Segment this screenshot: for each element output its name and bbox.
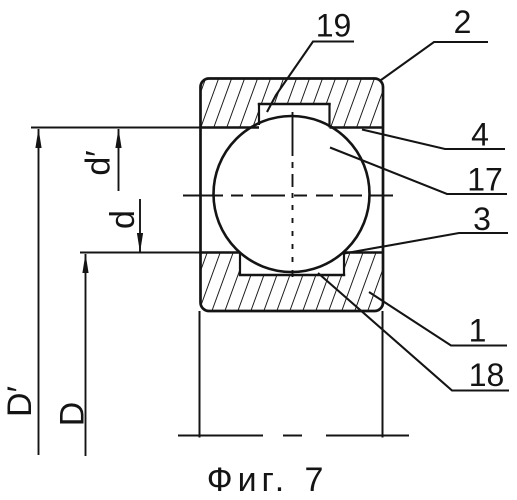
leader 1 [369,292,507,346]
svg-text:Фиг.: Фиг. [207,461,290,499]
svg-text:2: 2 [454,4,472,40]
svg-text:D′: D′ [1,386,39,417]
inner ring 1 hatched section [201,253,384,312]
dimension D [54,254,92,457]
bearing outline [201,79,384,312]
svg-text:7: 7 [305,461,324,499]
raceway insert 18 (bottom notch) [239,251,345,276]
shaft left edge [199,311,201,438]
shaft right edge [382,311,384,438]
leader 3 [344,233,508,254]
svg-text:4: 4 [471,117,489,153]
svg-text:d: d [104,210,142,229]
outer ring 2 hatched section [201,79,384,128]
dimension D' [1,129,42,456]
svg-text:19: 19 [316,8,352,44]
raceway insert 19 (top notch) [258,103,331,129]
svg-text:3: 3 [473,201,491,237]
shield 4 line (bottom edge of outer ring) [201,126,260,128]
svg-text:D: D [54,402,92,427]
leader 19 [267,42,354,113]
horizontal centerline [183,195,396,197]
svg-text:1: 1 [469,313,487,349]
shield 3 line (top edge of inner ring) [201,251,241,253]
extension line at d' level [31,127,200,129]
rotation axis [178,435,409,437]
extension line at d level [80,252,200,254]
dimension d [104,199,143,253]
svg-text:17: 17 [467,162,503,198]
svg-text:18: 18 [469,357,505,393]
svg-text:d′: d′ [80,150,118,175]
leader 17 [330,148,507,195]
vertical centerline [292,112,294,277]
dimension d' [80,129,122,192]
leader 2 [381,42,488,80]
ball 17 [214,116,370,272]
leader 18 [318,273,509,391]
leader 4 [362,130,505,150]
